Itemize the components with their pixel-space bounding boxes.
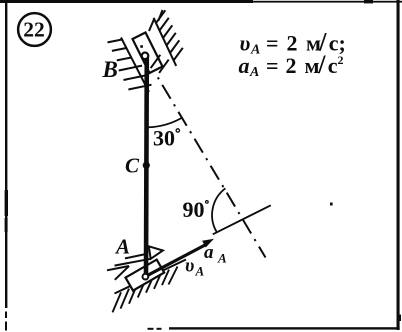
perpendicular direction line at 90	[213, 205, 271, 234]
pin B	[142, 53, 149, 60]
left border blob 2	[5, 218, 8, 232]
support triangle at A	[149, 246, 163, 258]
acceleration arrow aA	[146, 245, 206, 277]
hatch tick shallow at A left	[107, 266, 129, 270]
svg-text:υ: υ	[185, 256, 194, 277]
hatch ticks top of guide B	[149, 10, 163, 31]
ground hatch ticks at A	[113, 267, 178, 313]
upper wall segment 1 at A	[125, 254, 146, 258]
degree mark of 90	[206, 201, 209, 204]
arrowhead of aA	[202, 239, 214, 248]
angle 90 arc	[212, 188, 225, 232]
page border right	[397, 0, 400, 330]
svg-text:A: A	[217, 251, 227, 266]
guide wall B right	[154, 18, 177, 66]
point C	[143, 162, 150, 169]
page border bottom	[169, 327, 400, 329]
angle 30 arc	[147, 117, 183, 127]
hatch ticks below slider B	[151, 55, 169, 73]
left border dash 1	[5, 312, 7, 319]
stray speck	[330, 203, 333, 206]
hatch tick steep at A left	[115, 266, 129, 280]
page border left	[5, 0, 7, 308]
svg-text:22: 22	[23, 18, 45, 42]
top border blob	[364, 0, 373, 3]
bottom border dash 1	[148, 328, 154, 330]
svg-text:30: 30	[153, 126, 175, 151]
svg-text:C: C	[125, 154, 140, 178]
slider A body	[126, 260, 165, 291]
page border top thick	[0, 0, 253, 3]
degree mark of 30	[176, 129, 179, 132]
hatch ticks left of guide B	[108, 40, 152, 90]
svg-text:B: B	[102, 57, 118, 82]
bottom border dash 2	[157, 328, 162, 330]
problem number circle	[18, 13, 51, 46]
rod AB	[144, 55, 149, 276]
slider B body	[133, 33, 163, 74]
svg-text:A: A	[114, 235, 130, 259]
svg-text:a: a	[204, 242, 214, 263]
left border dash 2	[5, 322, 7, 331]
guide wall B left	[121, 38, 149, 93]
svg-text:A: A	[195, 264, 205, 279]
upper wall segment 2 at A	[115, 259, 151, 266]
page border top thin	[253, 1, 402, 3]
svg-text:90: 90	[183, 197, 205, 222]
left border blob 1	[5, 190, 8, 216]
hatch ticks right of guide B	[156, 10, 183, 60]
pin A	[143, 274, 149, 280]
right border blob	[398, 315, 401, 322]
guide centre line (dash-dot)	[158, 77, 266, 257]
guide centre line dot inside slider B	[140, 45, 143, 48]
slider A lower guide wall	[115, 260, 187, 294]
